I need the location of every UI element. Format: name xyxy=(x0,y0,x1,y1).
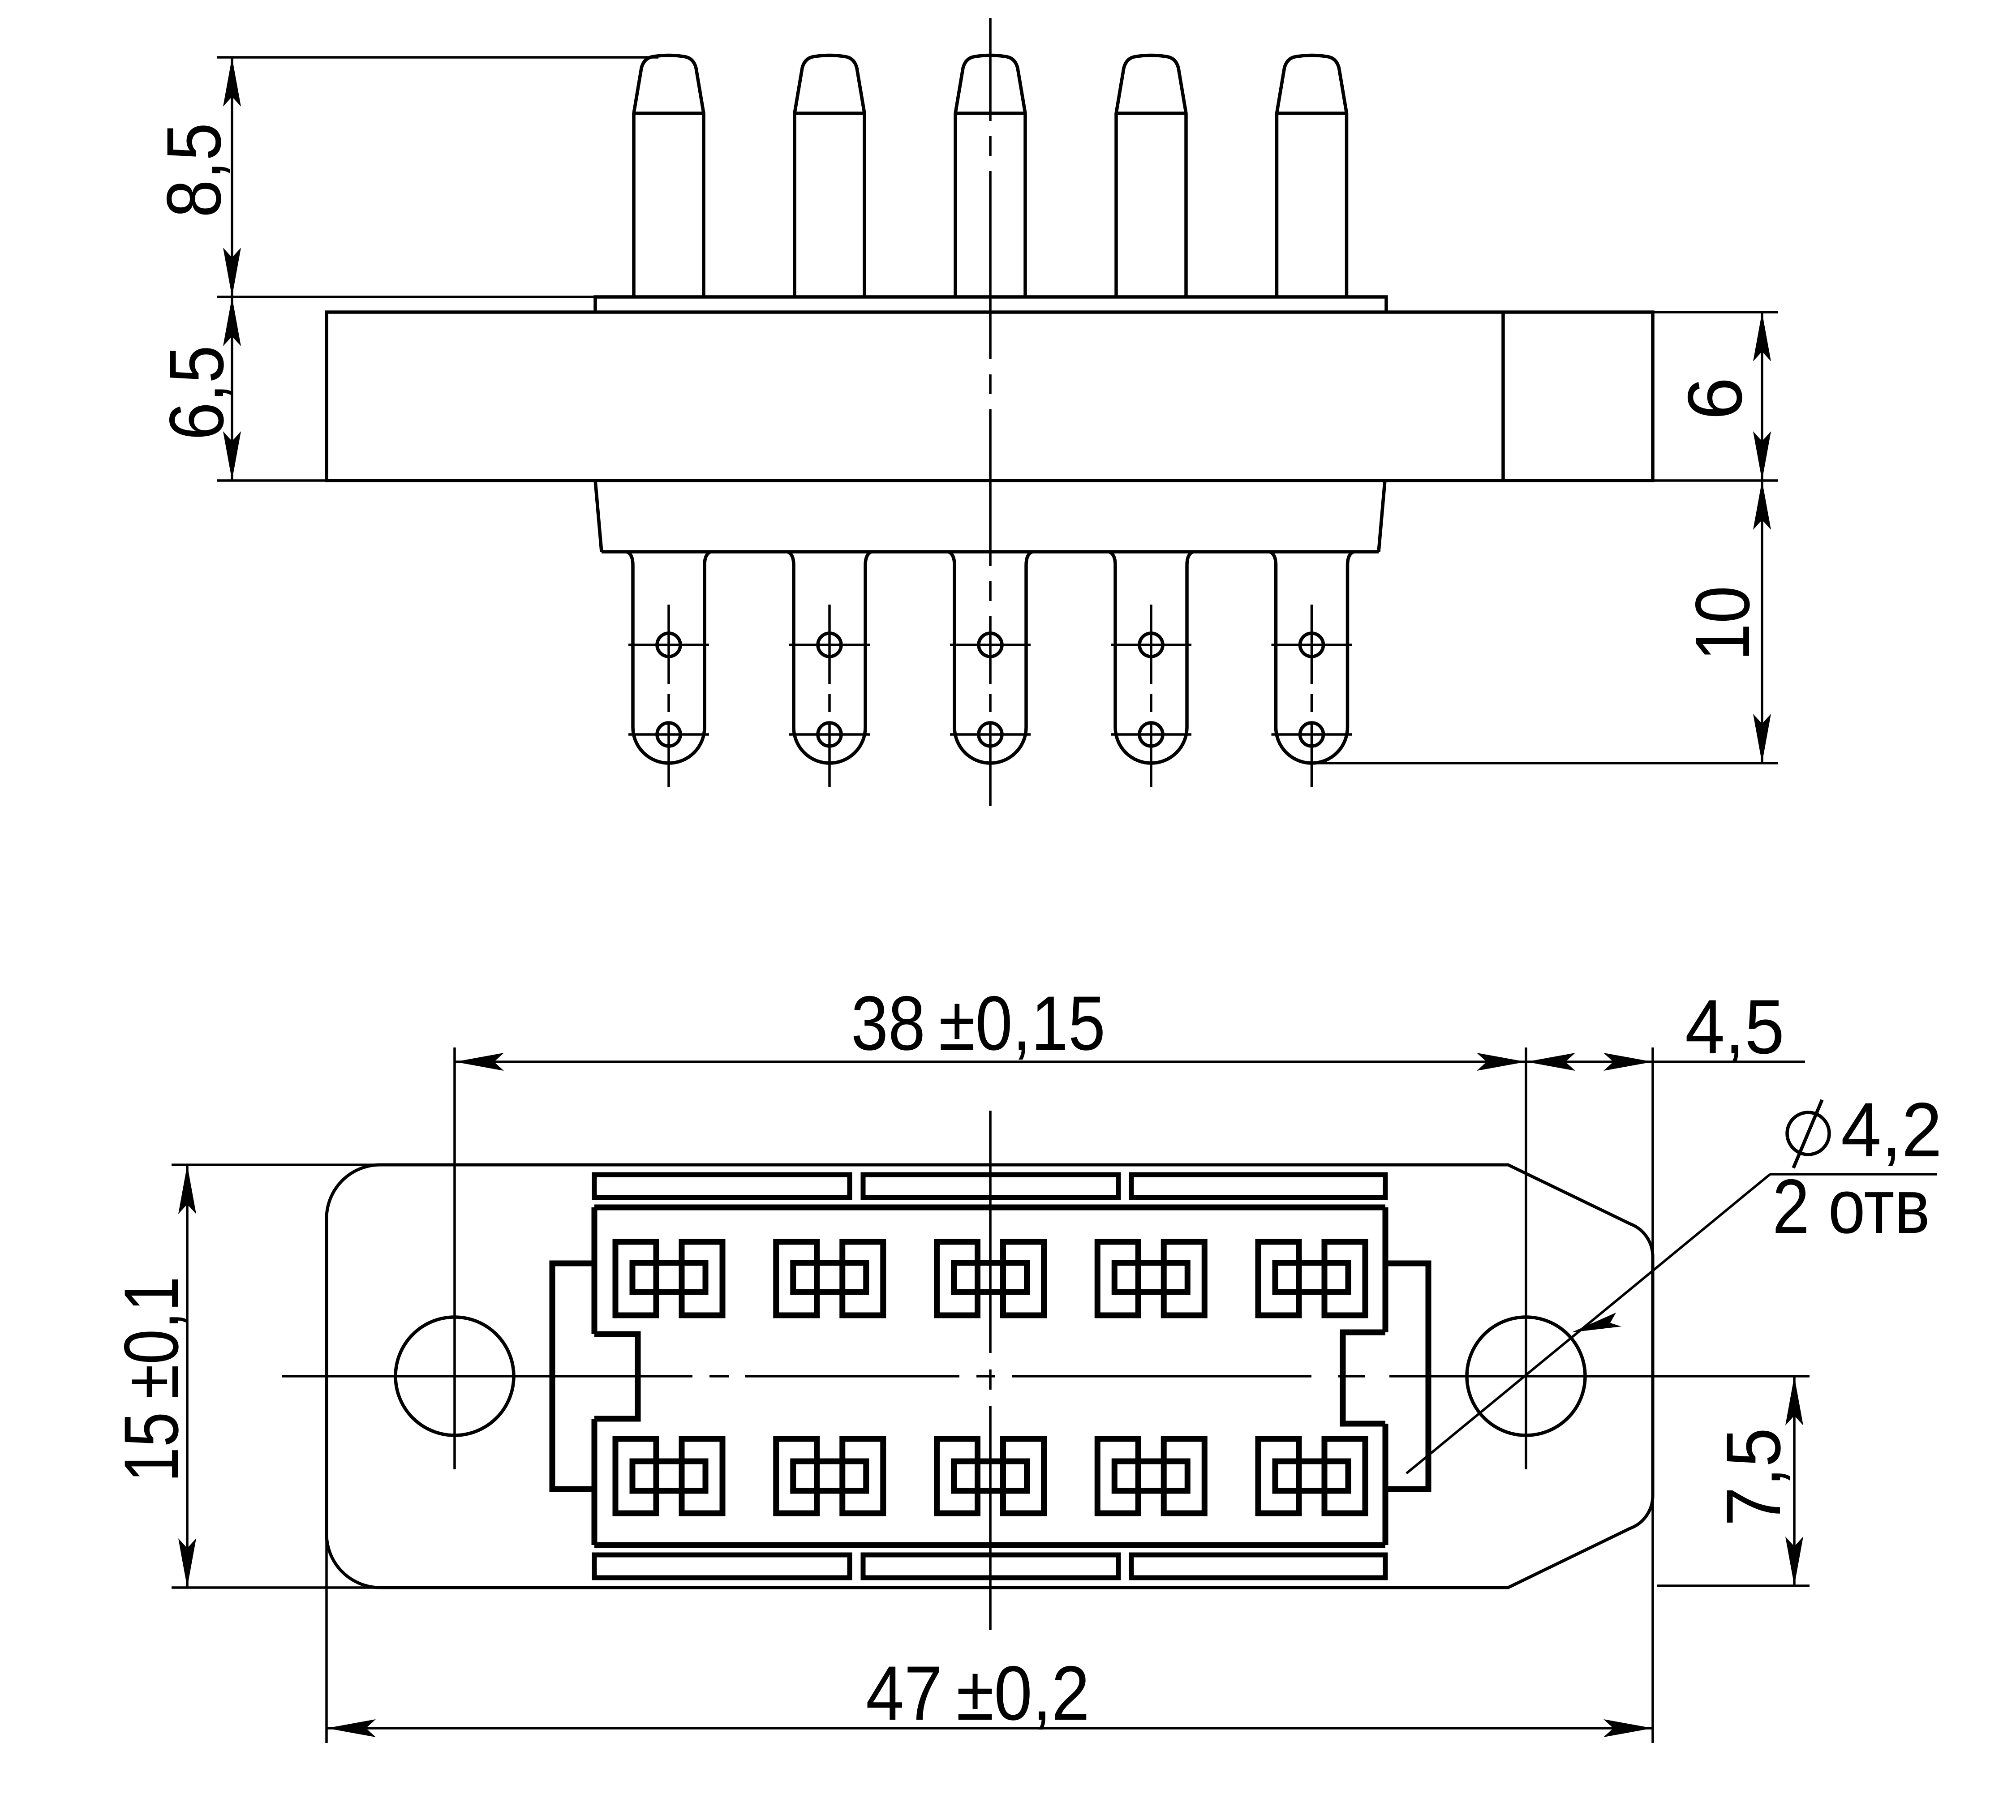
lug 4 upper hole xyxy=(1139,633,1163,657)
lug 5 hole cross ticks xyxy=(1272,645,1352,734)
insert left edge xyxy=(592,1207,597,1545)
lug 5 upper hole xyxy=(1300,633,1324,657)
leader shelf xyxy=(1770,1173,1937,1176)
contact slot H row 2 col 4 xyxy=(1097,1439,1204,1513)
dimension line 4,5 xyxy=(1526,1060,1805,1063)
lug 4 lower hole xyxy=(1139,723,1163,746)
top edge slot 2 xyxy=(863,1175,1118,1198)
lug 4 centerline xyxy=(1150,605,1152,787)
svg-text:38 ±0,15: 38 ±0,15 xyxy=(851,980,1105,1066)
insert right ear xyxy=(1385,1263,1428,1489)
contact slot H row 1 col 4 xyxy=(1097,1242,1204,1315)
lug 3 upper hole xyxy=(979,633,1002,657)
lug 2 lower hole xyxy=(818,723,841,746)
lug 1 hole cross ticks xyxy=(628,645,709,734)
solder lug 3 xyxy=(948,552,1032,763)
extension line outline top (15 dim) xyxy=(172,1163,390,1166)
svg-text:4,2: 4,2 xyxy=(1841,1087,1942,1173)
insert right keying notch xyxy=(1343,1332,1385,1424)
top view: extension line (pin top, 8.5 ref) xyxy=(217,56,658,59)
contact slot H row 1 col 2 xyxy=(776,1242,883,1315)
insert left ear xyxy=(552,1263,594,1489)
svg-text:2 отв: 2 отв xyxy=(1772,1163,1930,1249)
extension of bottom edge (7,5 dim) xyxy=(1657,1584,1810,1587)
extension line at lug bottom xyxy=(1313,762,1778,764)
lug 2 centerline xyxy=(828,605,831,787)
lug 5 centerline xyxy=(1311,605,1313,787)
pin 1 (contact pin, side view) xyxy=(634,56,704,297)
extension line left (47 dim) xyxy=(325,1523,328,1743)
vertical centerline (bottom view) xyxy=(989,1111,992,1630)
svg-text:8,5: 8,5 xyxy=(151,123,237,218)
extension line right (47 dim) xyxy=(1651,1494,1654,1743)
contact slot H row 2 col 2 xyxy=(776,1439,883,1513)
lug 1 centerline xyxy=(667,605,670,787)
dimension line 10 xyxy=(1761,481,1763,763)
solder lug 5 xyxy=(1270,552,1354,763)
dimension line 38±0,15 xyxy=(455,1060,1526,1063)
dimension line 7,5 xyxy=(1793,1376,1796,1586)
insulator plate (top flange, side view) xyxy=(595,297,1386,312)
solder lug 4 xyxy=(1109,552,1193,763)
pin 3 (contact pin, side view) xyxy=(955,56,1025,297)
horizontal centerline (bottom view) xyxy=(282,1375,1810,1378)
extension line right edge (4,5) xyxy=(1651,1047,1654,1258)
dimension line 15±0,1 xyxy=(186,1165,189,1588)
solder lug 1 xyxy=(627,552,711,763)
leader line to hole xyxy=(1406,1174,1770,1473)
bottom view: connector outline (front view) xyxy=(327,1165,1653,1588)
dimension line 6 xyxy=(1761,312,1763,481)
lug 3 lower hole xyxy=(979,723,1002,746)
extension line at body bottom (left) xyxy=(217,479,327,482)
lug 2 upper hole xyxy=(818,633,841,657)
top edge slot 3 xyxy=(1131,1175,1385,1198)
bottom edge slot 2 xyxy=(863,1555,1118,1578)
insert right edge xyxy=(1383,1207,1388,1545)
contact slot H row 2 col 5 xyxy=(1258,1439,1365,1513)
lug 4 hole cross ticks xyxy=(1111,645,1191,734)
diameter symbol xyxy=(1787,1100,1829,1168)
left mounting hole xyxy=(395,1317,514,1435)
body chamfer edge line xyxy=(1501,312,1505,481)
dimension line 47±0,2 xyxy=(327,1727,1653,1730)
contact slot H row 2 col 3 xyxy=(937,1439,1044,1513)
svg-text:15 ±0,1: 15 ±0,1 xyxy=(108,1276,194,1482)
extension line outline bottom (15 dim) xyxy=(172,1586,390,1589)
pin 2 (contact pin, side view) xyxy=(795,56,864,297)
right hole centerline / extension xyxy=(1525,1047,1527,1469)
insert bottom edge xyxy=(594,1542,1385,1548)
top edge slot 1 xyxy=(594,1175,850,1198)
dimension line 8,5 xyxy=(231,57,233,297)
lug 3 hole cross ticks xyxy=(950,645,1031,734)
contact slot H row 1 col 5 xyxy=(1258,1242,1365,1315)
lug 2 hole cross ticks xyxy=(789,645,870,734)
extension lines right (6 dim) xyxy=(1653,311,1778,313)
pin 5 (contact pin, side view) xyxy=(1277,56,1347,297)
contact slot H row 1 col 3 xyxy=(937,1242,1044,1315)
lug 5 lower hole xyxy=(1300,723,1324,746)
lug 1 lower hole xyxy=(657,723,680,746)
left hole centerline / extension xyxy=(453,1047,456,1469)
contact slot H row 2 col 1 xyxy=(615,1439,722,1513)
main vertical centerline (top view) xyxy=(989,18,992,806)
insert left keying notch xyxy=(594,1334,638,1419)
solder lug 2 xyxy=(787,552,872,763)
dimension line 6,5 xyxy=(231,297,233,481)
insert top edge xyxy=(594,1205,1385,1210)
contact slot H row 1 col 1 xyxy=(615,1242,722,1315)
extension line at pin base / plate top xyxy=(217,296,595,298)
bottom edge slot 3 xyxy=(1131,1555,1385,1578)
svg-text:47 ±0,2: 47 ±0,2 xyxy=(866,1650,1090,1736)
svg-text:4,5: 4,5 xyxy=(1685,984,1784,1070)
svg-text:10: 10 xyxy=(1680,586,1766,661)
svg-text:6,5: 6,5 xyxy=(154,345,240,440)
svg-text:7,5: 7,5 xyxy=(1711,1428,1797,1526)
svg-text:6: 6 xyxy=(1672,377,1758,420)
lug 1 upper hole xyxy=(657,633,680,657)
connector body (side view) xyxy=(327,312,1653,481)
pin 4 (contact pin, side view) xyxy=(1116,56,1186,297)
bottom edge slot 1 xyxy=(594,1555,850,1578)
skirt (lower housing, side view) xyxy=(595,481,1385,552)
right mounting hole xyxy=(1467,1317,1585,1435)
